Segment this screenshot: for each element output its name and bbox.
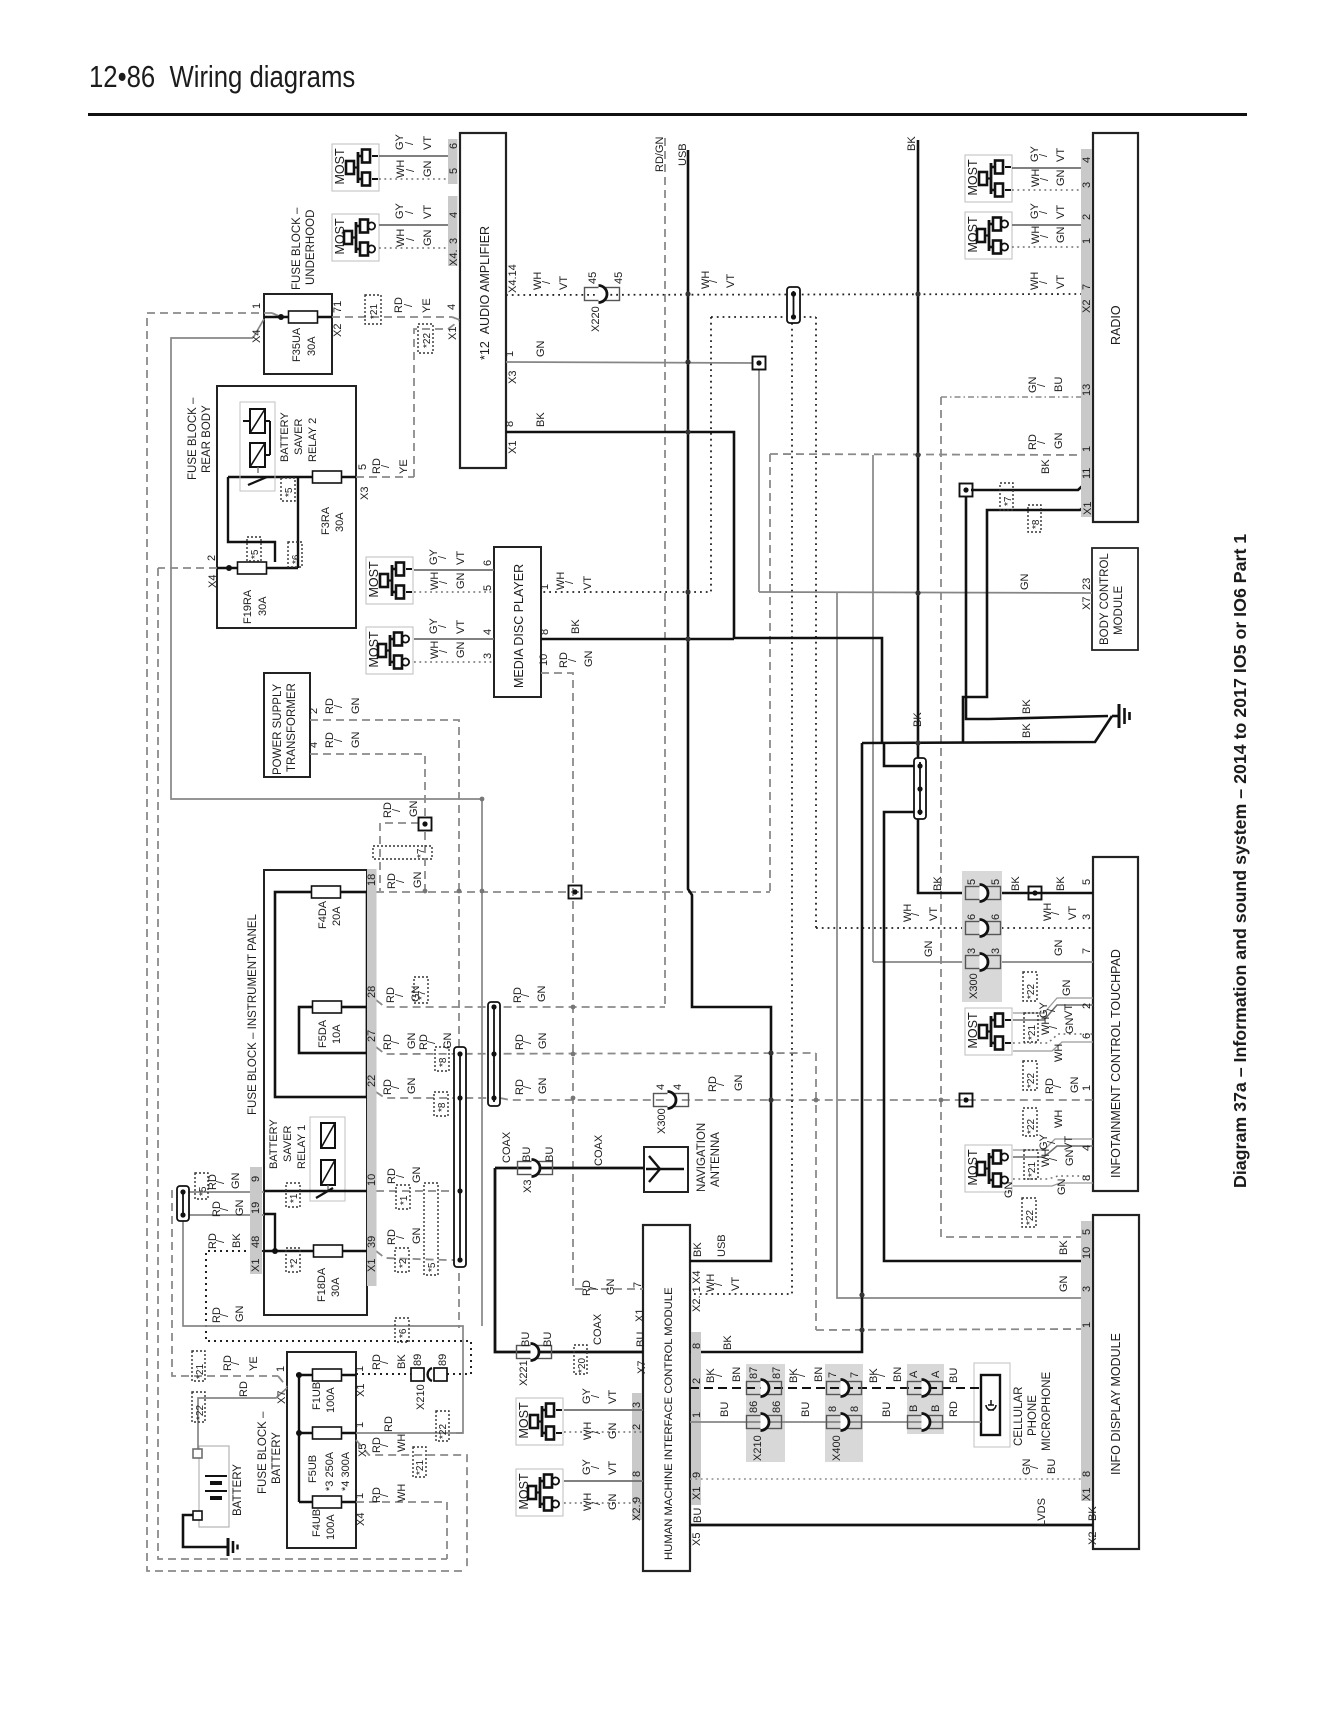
svg-text:GN: GN	[1019, 573, 1031, 590]
wire: F35UA fuse wire	[264, 316, 332, 318]
svg-text:8: 8	[504, 421, 516, 427]
wire: media player pin10 RD/GN dashed	[541, 673, 643, 1289]
battery symbol plates	[205, 1476, 227, 1498]
svg-text:X1: X1	[507, 441, 519, 454]
svg-text:7: 7	[827, 1372, 839, 1378]
human machine interface control module box	[643, 1225, 690, 1571]
svg-text:GN: GN	[1053, 939, 1065, 956]
svg-text:WH: WH	[395, 229, 407, 247]
strip: radio X2/X1	[1081, 149, 1092, 517]
svg-text:X4: X4	[691, 1271, 703, 1284]
svg-text:X220: X220	[590, 306, 602, 332]
svg-text:WH: WH	[1042, 903, 1054, 921]
svg-text:*6: *6	[291, 554, 302, 564]
wire: RD/GN dashed bus from panel pin 18	[376, 891, 770, 893]
wire: F5UB row	[299, 1432, 356, 1434]
svg-text:X5: X5	[357, 1444, 369, 1457]
svg-text:*22: *22	[1026, 1073, 1037, 1088]
svg-text:1: 1	[1081, 1322, 1093, 1328]
svg-text:3: 3	[1081, 1286, 1093, 1292]
svg-text:GN: GN	[1064, 1149, 1076, 1166]
wire: RD/YE dashed branch via *22 to amplifier	[414, 321, 459, 477]
inner thick box F5DA	[299, 1007, 367, 1053]
splice bar connector 2 (mid)	[488, 1002, 500, 1106]
svg-text:GN: GN	[406, 1032, 418, 1049]
svg-text:VT: VT	[422, 205, 434, 219]
svg-text:8: 8	[691, 1343, 703, 1349]
connector X221 coax pair	[517, 1344, 552, 1361]
wire: diagonal into F35UA pin 1	[253, 319, 264, 338]
svg-text:*21: *21	[369, 304, 380, 319]
svg-text:MICROPHONE: MICROPHONE	[1041, 1371, 1053, 1451]
svg-text:VT: VT	[928, 907, 940, 921]
wire: panel pin 39 RD/GN	[376, 1251, 454, 1260]
svg-text:1: 1	[354, 1422, 366, 1428]
svg-text:*7: *7	[1003, 496, 1014, 506]
svg-text:3: 3	[482, 653, 494, 659]
svg-text:MEDIA DISC PLAYER: MEDIA DISC PLAYER	[512, 564, 526, 688]
wire: relay 1 contact row pin9 to pin10	[264, 1190, 367, 1192]
wire: panel pin 10 RD/GN	[376, 1190, 454, 1192]
svg-text:BU: BU	[635, 1332, 647, 1347]
svg-text:*12 AUDIO AMPLIFIER: *12 AUDIO AMPLIFIER	[478, 226, 492, 360]
svg-text:11: 11	[1081, 468, 1093, 479]
svg-text:F5UB: F5UB	[307, 1455, 319, 1483]
svg-text:RELAY 1: RELAY 1	[296, 1125, 308, 1169]
svg-text:3: 3	[448, 238, 460, 244]
svg-text:7: 7	[632, 1282, 644, 1288]
svg-text:POWER SUPPLY: POWER SUPPLY	[272, 684, 284, 775]
svg-text:GN: GN	[1058, 1275, 1070, 1292]
svg-text:X1: X1	[634, 1309, 646, 1322]
svg-text:VT: VT	[455, 620, 467, 634]
svg-text:BODY CONTROL: BODY CONTROL	[1099, 553, 1111, 645]
wire: BK vertical x862 down to HMI X2.8	[690, 743, 862, 1352]
svg-text:WH: WH	[429, 641, 441, 659]
svg-text:1: 1	[275, 1366, 287, 1372]
svg-text:GN: GN	[1055, 169, 1067, 186]
wire: instrument panel left pin 19 gray	[189, 1214, 264, 1216]
svg-text:VT: VT	[1063, 1004, 1075, 1018]
svg-text:3: 3	[966, 948, 978, 954]
body control module box	[1092, 548, 1138, 650]
svg-text:RD: RD	[383, 1416, 395, 1432]
svg-text:8: 8	[539, 629, 551, 635]
svg-text:RELAY 2: RELAY 2	[307, 418, 319, 462]
audio amplifier U-AMP box	[460, 133, 506, 468]
fuse block underhood box	[264, 207, 332, 374]
media disc player box	[494, 547, 541, 697]
fuse block battery box	[257, 1352, 356, 1548]
wire: GN gray vertical x873 to touchpad row	[872, 455, 874, 962]
svg-text:A: A	[908, 1370, 920, 1378]
svg-text:BK: BK	[932, 876, 944, 891]
svg-text:VT: VT	[730, 1277, 742, 1291]
wire: GN gray row 592 to BCM X7.23	[759, 592, 1092, 593]
svg-text:4: 4	[446, 304, 458, 310]
node: F35UA junction dot	[278, 314, 284, 320]
svg-text:X1: X1	[355, 1384, 367, 1397]
svg-text:27: 27	[366, 1030, 378, 1042]
svg-text:BU: BU	[520, 1332, 532, 1347]
svg-text:5: 5	[357, 464, 369, 470]
svg-text:*3 250A: *3 250A	[324, 1451, 336, 1491]
connector X210 (89|89)	[411, 1368, 447, 1381]
connector B|B	[908, 1414, 943, 1431]
svg-text:8: 8	[849, 1406, 861, 1412]
svg-text:BK: BK	[1021, 699, 1033, 714]
svg-text:8: 8	[1081, 1471, 1093, 1477]
svg-text:BATTERY: BATTERY	[279, 412, 291, 462]
svg-text:6: 6	[1081, 1033, 1093, 1039]
strip: HMI right X1	[691, 1332, 701, 1505]
svg-text:GN: GN	[605, 1278, 617, 1295]
battery terminals	[193, 1449, 202, 1458]
wire: battery negative to ground	[183, 1515, 228, 1547]
ref *22 touchpad b	[1023, 1061, 1037, 1090]
wire: LVDS thick black HMI X5 to info display X2	[690, 1524, 1093, 1527]
svg-text:F19RA: F19RA	[242, 589, 254, 624]
svg-text:5: 5	[1081, 879, 1093, 885]
strip: instrument panel right X1	[367, 869, 377, 1286]
svg-text:86: 86	[748, 1401, 760, 1413]
svg-text:7: 7	[1081, 284, 1093, 290]
svg-text:VT: VT	[558, 276, 570, 290]
fuse F5DA	[313, 1001, 342, 1013]
wire: BK from square down to ground row	[966, 496, 989, 719]
svg-text:*2: *2	[398, 1258, 409, 1268]
svg-text:F4DA: F4DA	[317, 900, 329, 929]
svg-text:FUSE BLOCK –: FUSE BLOCK –	[291, 207, 303, 290]
wire: BK row 743 to ground	[862, 716, 1112, 743]
svg-text:X7: X7	[1081, 597, 1093, 610]
touchpad fiber bands (gray outline)	[1013, 998, 1093, 1013]
svg-text:NAVIGATION: NAVIGATION	[696, 1123, 708, 1192]
svg-text:F18DA: F18DA	[316, 1267, 328, 1302]
svg-text:PHONE: PHONE	[1027, 1395, 1039, 1436]
node: F19RA junction dot	[226, 565, 232, 571]
junction dots on buses	[423, 291, 944, 1332]
svg-text:BN: BN	[892, 1367, 904, 1382]
svg-text:INFOTAINMENT CONTROL TOUCHPAD: INFOTAINMENT CONTROL TOUCHPAD	[1109, 949, 1123, 1178]
svg-text:REAR BODY: REAR BODY	[201, 405, 213, 473]
wire: BK branch via splice bar to info display pin 10	[884, 743, 914, 766]
wire: BK media player pin 8 row	[541, 638, 734, 641]
ref *22 top	[418, 324, 433, 353]
svg-text:5: 5	[966, 879, 978, 885]
svg-text:F4UB: F4UB	[311, 1509, 323, 1537]
wire: inner dashed border left	[158, 568, 447, 1559]
wire: gray splice-bar feed down and right	[183, 1221, 463, 1433]
svg-text:8: 8	[827, 1406, 839, 1412]
wire: touchpad MOST2 fibers	[1013, 1146, 1093, 1157]
connector X3 coax pair	[518, 1160, 553, 1177]
svg-text:F35UA: F35UA	[291, 327, 303, 362]
svg-text:30A: 30A	[306, 336, 318, 356]
wire: F1UB row	[296, 1374, 356, 1376]
wire: BK main bus x918	[918, 140, 1093, 893]
svg-text:BK: BK	[1040, 459, 1052, 474]
splice bar connector left of instrument panel	[177, 1186, 189, 1221]
svg-text:30A: 30A	[257, 596, 269, 616]
svg-text:WH: WH	[1029, 272, 1041, 290]
connector X220 pair	[585, 286, 620, 303]
svg-text:WH: WH	[1030, 169, 1042, 187]
ref *1 outer	[396, 1185, 410, 1209]
svg-text:BK: BK	[535, 412, 547, 427]
square junction connectors	[419, 818, 432, 831]
svg-text:6: 6	[448, 143, 460, 149]
svg-text:BATTERY: BATTERY	[232, 1464, 244, 1516]
ref *22 touchpad d	[1022, 1198, 1036, 1227]
svg-text:89: 89	[412, 1354, 424, 1366]
svg-text:VT: VT	[422, 136, 434, 150]
svg-text:BK: BK	[906, 136, 918, 151]
ref *2 panel inner	[286, 1248, 300, 1272]
svg-text:LVDS: LVDS	[1036, 1498, 1048, 1526]
fuse F4UB	[313, 1496, 342, 1508]
MOST connectors: HMI	[516, 1398, 563, 1445]
svg-text:GN: GN	[923, 940, 935, 957]
svg-text:X4: X4	[251, 330, 263, 343]
svg-text:8: 8	[631, 1471, 643, 1477]
ref *21 touchpad a	[1024, 1013, 1038, 1042]
svg-text:4: 4	[672, 1084, 684, 1090]
svg-text:X210: X210	[752, 1435, 764, 1461]
svg-text:6: 6	[966, 914, 978, 920]
svg-text:3: 3	[631, 1402, 643, 1408]
wire: HMI X1.9 GN/BU dotted to info display X1.8	[690, 1478, 1081, 1480]
svg-text:1: 1	[1081, 238, 1093, 244]
svg-text:28: 28	[366, 986, 378, 998]
svg-text:WH: WH	[396, 1484, 408, 1502]
connector X210 87|87	[747, 1380, 782, 1397]
svg-text:2: 2	[308, 708, 320, 714]
svg-text:WH: WH	[1040, 1017, 1052, 1035]
svg-text:GY: GY	[394, 133, 406, 150]
connector X210 86|86	[747, 1414, 782, 1431]
svg-text:USB: USB	[716, 1234, 728, 1257]
svg-text:RD: RD	[948, 1401, 960, 1417]
relay: battery saver relay 2	[240, 402, 275, 491]
svg-text:X1: X1	[250, 1259, 262, 1272]
infotainment control touchpad box	[1093, 857, 1138, 1191]
svg-text:BK: BK	[722, 1335, 734, 1350]
svg-text:*22: *22	[1026, 984, 1037, 999]
svg-text:71: 71	[332, 301, 344, 313]
wire: RD/GN dashed transformer pin 4	[310, 754, 425, 817]
svg-text:10A: 10A	[331, 1024, 343, 1044]
svg-text:2: 2	[1081, 214, 1093, 220]
svg-text:MODULE: MODULE	[1113, 585, 1125, 635]
svg-text:YE: YE	[248, 1356, 260, 1371]
svg-text:12•86 Wiring diagrams: 12•86 Wiring diagrams	[89, 60, 355, 95]
svg-text:45: 45	[587, 272, 599, 284]
ref *6 rear body	[288, 542, 302, 567]
connector X400 8|8	[827, 1414, 862, 1431]
svg-text:*6: *6	[398, 1328, 409, 1338]
wire: outer dashed border left	[147, 313, 467, 1571]
wire: GN gray down from square to row 592	[758, 370, 760, 592]
svg-text:4: 4	[448, 212, 460, 218]
svg-text:BK: BK	[1010, 876, 1022, 891]
svg-text:X1: X1	[1081, 1488, 1093, 1501]
svg-text:18: 18	[366, 874, 378, 886]
svg-text:GN: GN	[583, 650, 595, 667]
svg-text:*8: *8	[438, 1057, 449, 1067]
svg-text:RD/GN: RD/GN	[654, 137, 666, 173]
svg-text:13: 13	[1081, 384, 1093, 396]
radio box	[1093, 133, 1138, 522]
svg-text:GN: GN	[536, 985, 548, 1002]
svg-text:FUSE BLOCK – INSTRUMENT PANEL: FUSE BLOCK – INSTRUMENT PANEL	[247, 914, 259, 1115]
ref *21 top	[365, 295, 381, 324]
power supply transformer box	[264, 673, 310, 777]
svg-text:BN: BN	[731, 1367, 743, 1382]
svg-text:X4.: X4.	[448, 249, 460, 266]
svg-text:WH: WH	[705, 1274, 717, 1292]
svg-text:TRANSFORMER: TRANSFORMER	[286, 683, 298, 772]
svg-text:WH: WH	[396, 1434, 408, 1452]
wire: rear body internal L-path	[228, 477, 275, 562]
svg-text:X4: X4	[207, 575, 219, 588]
fuse F3RA	[313, 471, 342, 483]
svg-text:7: 7	[849, 1372, 861, 1378]
strip: amplifier X4	[448, 139, 458, 184]
svg-text:VT: VT	[1055, 275, 1067, 289]
svg-text:GY: GY	[1029, 145, 1041, 162]
svg-text:GY: GY	[394, 202, 406, 219]
svg-text:WH: WH	[700, 271, 712, 289]
svg-text:X2.: X2.	[631, 1504, 643, 1521]
wire: HMI X1.2 BK/BN dashed to microphone	[690, 1387, 981, 1389]
wire: F19RA row	[217, 567, 298, 569]
ref *22 battery	[192, 1392, 205, 1422]
wire: WH/VT dotted down to media player pin 1	[541, 317, 711, 592]
svg-text:3: 3	[1081, 182, 1093, 188]
svg-text:COAX: COAX	[592, 1313, 604, 1345]
svg-text:VT: VT	[1067, 906, 1079, 920]
svg-text:VT: VT	[607, 1461, 619, 1475]
svg-text:COAX: COAX	[593, 1134, 605, 1166]
svg-text:F3RA: F3RA	[320, 506, 332, 535]
svg-text:WH: WH	[1053, 1110, 1065, 1128]
svg-text:GN: GN	[411, 1227, 423, 1244]
svg-text:BK: BK	[1055, 876, 1067, 891]
wire: RD/GN dashed vertical x665 from top	[664, 138, 666, 1007]
wire: GN gray row 962 through X300.3 to touchpad pin 7	[873, 961, 1093, 963]
svg-text:RADIO: RADIO	[1109, 305, 1123, 345]
svg-text:GN: GN	[455, 572, 467, 589]
svg-text:4: 4	[655, 1084, 667, 1090]
svg-text:VT: VT	[1055, 148, 1067, 162]
wire: touchpad MOST1 fibers	[1013, 1005, 1093, 1020]
svg-text:BK: BK	[570, 619, 582, 634]
ref *6 bottom	[395, 1318, 409, 1342]
ref *1 panel inner	[286, 1183, 300, 1207]
svg-text:WH: WH	[429, 572, 441, 590]
svg-text:GN: GN	[607, 1422, 619, 1439]
svg-text:BU: BU	[881, 1402, 893, 1417]
svg-text:BU: BU	[544, 1147, 556, 1162]
svg-text:X4: X4	[355, 1513, 367, 1526]
svg-text:X7: X7	[276, 1391, 288, 1404]
fuse F35UA	[289, 311, 318, 323]
ref *5 rear body left	[247, 537, 261, 561]
wire: WH/VT dotted row to touchpad pin 3	[816, 927, 1093, 929]
wire: RD/GN row y1100 through X300.4 to touchpad pin 1	[500, 1098, 1093, 1100]
wire: dashed vertical x816 lower	[815, 1053, 817, 1330]
svg-text:2: 2	[691, 1378, 703, 1384]
svg-text:YE: YE	[398, 459, 410, 474]
svg-text:9: 9	[250, 1176, 262, 1182]
svg-text:X221: X221	[518, 1360, 530, 1386]
svg-text:ANTENNA: ANTENNA	[710, 1132, 722, 1187]
splice bar connector 1 (tall, mid)	[454, 1047, 466, 1267]
svg-text:X4.14: X4.14	[507, 264, 519, 293]
svg-text:X400: X400	[831, 1435, 843, 1461]
svg-text:VT: VT	[455, 551, 467, 565]
svg-text:GN: GN	[537, 1032, 549, 1049]
svg-text:GN: GN	[442, 1032, 454, 1049]
wire: RD/GN dashed transformer pin 2	[310, 720, 459, 1328]
svg-text:GN: GN	[733, 1074, 745, 1091]
svg-text:BK: BK	[1058, 1240, 1070, 1255]
svg-text:GN: GN	[230, 1172, 242, 1189]
svg-text:GN: GN	[410, 985, 422, 1002]
svg-text:BK: BK	[1087, 1506, 1099, 1521]
wire: BK amplifier X1.8	[506, 432, 734, 638]
svg-text:*8: *8	[1031, 519, 1042, 529]
svg-text:*8: *8	[437, 1102, 448, 1112]
antenna symbol inside box	[646, 1156, 684, 1182]
ref *5 rear body contact	[281, 478, 295, 501]
connector X300 pin4 pair	[654, 1092, 689, 1109]
wire: COAX vertical down to X221	[495, 1168, 643, 1352]
wire: F5UB X5.1 gray RD	[356, 1432, 463, 1434]
svg-text:GY: GY	[1029, 202, 1041, 219]
svg-text:*22: *22	[1026, 1119, 1037, 1134]
connector X300 6|6	[966, 920, 1001, 937]
ref *5 tall	[424, 1183, 438, 1275]
svg-text:BK: BK	[1021, 723, 1033, 738]
svg-text:BU: BU	[719, 1402, 731, 1417]
touchpad MOST2 bands	[1013, 1139, 1093, 1150]
ref *22 X5	[436, 1411, 449, 1441]
battery box	[199, 1446, 244, 1527]
svg-text:30A: 30A	[334, 512, 346, 532]
svg-text:*4 300A: *4 300A	[340, 1451, 352, 1491]
fuse F5UB	[313, 1427, 342, 1439]
svg-text:BATTERY: BATTERY	[268, 1119, 280, 1169]
wire: battery feed vertical	[298, 1375, 300, 1502]
svg-text:Diagram 37a – Information and: Diagram 37a – Information and sound syst…	[1230, 534, 1250, 1188]
svg-text:1: 1	[539, 584, 551, 590]
connector X300 5|5	[966, 885, 1001, 902]
wire: rear body relay contact row	[228, 476, 356, 478]
svg-text:GN: GN	[1064, 1017, 1076, 1034]
svg-text:4: 4	[308, 742, 320, 748]
cellular phone microphone	[974, 1363, 1053, 1451]
ref *8 row22	[434, 1092, 448, 1116]
node: F18DA junction dot	[272, 1248, 278, 1254]
wire: dashed vertical x941 down to info display pin 5	[941, 397, 1081, 1237]
svg-text:BK: BK	[692, 1242, 704, 1257]
svg-text:5: 5	[448, 168, 460, 174]
switch diagonal	[316, 1188, 333, 1198]
wire: battery positive gray to X7.1	[198, 1388, 287, 1453]
svg-text:2: 2	[1081, 1003, 1093, 1009]
